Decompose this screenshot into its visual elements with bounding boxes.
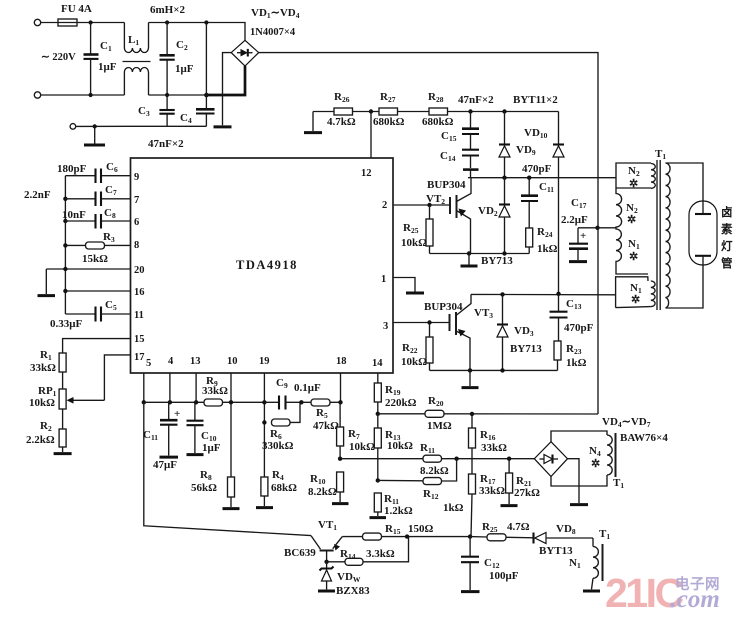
svg-text:10: 10 [227,356,238,367]
svg-text:1kΩ: 1kΩ [537,243,558,255]
node R11 right [454,457,458,461]
node pin13 bus [194,400,198,404]
wire collector line R15 [342,536,362,538]
svg-text:.com: .com [670,583,720,613]
wire pin10 down [230,373,232,402]
svg-text:4: 4 [168,356,174,367]
resistor R15 [363,523,471,540]
svg-text:BAW76×4: BAW76×4 [620,432,668,444]
svg-text:∼ 220V: ∼ 220V [41,52,76,63]
wire bottom bus [144,401,265,403]
node R25 top [427,203,431,207]
svg-text:470pF: 470pF [564,322,594,334]
wire earth line [76,125,207,127]
svg-text:10kΩ: 10kΩ [29,397,55,409]
diode VD2 [478,178,510,254]
ground VT3 source [462,370,479,387]
node bus pin16 [63,289,67,293]
wire AC bottom [41,94,125,96]
resistor R22 [401,323,433,371]
svg-text:15kΩ: 15kΩ [82,253,108,265]
terminal AC top [34,19,40,25]
svg-text:+: + [174,408,180,420]
svg-text:1μF: 1μF [98,61,117,73]
wire pin16 [65,290,130,292]
resistor R28 [422,91,454,128]
node bus pin20 [63,267,67,271]
node pin19 bus [262,400,266,404]
node VT3 source [468,368,472,372]
node R21 top [507,457,511,461]
lamp tube [689,201,717,265]
core T1 main [655,148,666,310]
transistor VT1 BC639 [284,519,342,562]
transistor VT3 BUP304 [424,294,493,370]
svg-text:灯: 灯 [721,239,733,253]
node VD3 bottom [500,368,504,372]
capacitor C1 [84,23,117,96]
wire IC pin2 to gate VT2 [393,204,450,206]
node R16 top [470,412,474,416]
svg-text:BY713: BY713 [510,343,542,355]
capacitor C8 [62,207,116,229]
svg-text:13: 13 [190,356,201,367]
svg-text:8.2kΩ: 8.2kΩ [420,465,449,477]
svg-text:180pF: 180pF [57,163,87,175]
node R13 bottom [376,478,380,482]
svg-text:56kΩ: 56kΩ [191,482,217,494]
wire IC pin3 to gate VT3 [393,322,450,324]
node C15 top [468,109,472,113]
wire R26 left stub [312,112,314,132]
wire bridge right to ground [568,459,580,503]
node pin12 feed [369,109,373,113]
wire feedback line [340,458,534,460]
wire pin9 [101,175,131,177]
node VT1 base [324,560,328,564]
svg-text:5: 5 [146,358,151,369]
svg-text:✲: ✲ [591,458,600,470]
diode VD10 [524,112,564,294]
svg-text:47nF×2: 47nF×2 [148,138,184,150]
svg-text:2.2μF: 2.2μF [561,214,588,226]
wire pin15 to R1 [63,339,131,353]
terminal AC bottom [34,92,40,98]
svg-text:7: 7 [134,195,139,206]
capacitor C15 [441,112,479,144]
capacitor C17 [561,197,597,262]
svg-text:17: 17 [134,352,145,363]
ground N1 [583,590,600,593]
resistor R16 [469,414,508,474]
node VD9 top [502,109,506,113]
ground pin1 [406,292,424,295]
node C1 top [89,20,93,24]
svg-text:2: 2 [382,200,387,211]
resistor R24 [526,226,558,255]
node R19 bottom [376,412,380,416]
svg-text:2.2nF: 2.2nF [24,189,51,201]
wire tap to winding [598,227,617,229]
svg-text:1μF: 1μF [175,63,194,75]
svg-text:4.7Ω: 4.7Ω [507,521,530,533]
svg-text:680kΩ: 680kΩ [422,116,454,128]
capacitor C7 [24,184,117,206]
svg-text:BYT11×2: BYT11×2 [513,94,558,106]
winding N1 [569,538,598,589]
capacitor C2 [160,23,194,96]
ground R2 [54,452,72,455]
wire pin4 down [169,373,171,402]
winding N4 [589,435,612,475]
wire bridge left vertex to ground [223,53,232,126]
wire VT3 source line [430,369,558,371]
svg-text:9: 9 [134,172,139,183]
terminal earth [70,124,76,130]
node R14 tie [405,534,409,538]
svg-text:1kΩ: 1kΩ [566,357,587,369]
node C11 top [527,176,531,180]
winding N2 lower / N1 upper primary [616,188,648,274]
svg-text:220kΩ: 220kΩ [385,397,417,409]
svg-text:47μF: 47μF [153,459,177,471]
resistor R14 [327,537,409,566]
node pin4 bus [168,400,172,404]
wire AC bottom right [149,94,207,96]
wire VT2 source line [430,253,530,255]
winding N2 upper primary [616,163,655,190]
svg-text:100μF: 100μF [489,570,519,582]
svg-text:10nF: 10nF [62,209,86,221]
capacitor C5 [50,299,131,330]
svg-text:10kΩ: 10kΩ [401,356,427,368]
ground earth [84,126,105,145]
capacitor C3 [138,95,175,126]
wire pin14 down [377,373,379,383]
svg-text:47nF×2: 47nF×2 [458,94,494,106]
wire pin5 long down [144,402,311,535]
svg-text:1: 1 [381,274,386,285]
logo 21IC [605,570,720,616]
svg-text:8.2kΩ: 8.2kΩ [308,486,337,498]
svg-text:18: 18 [336,356,347,367]
fuse FU 4A [58,3,92,26]
wire pin7 [101,198,131,200]
node VD2 top [502,176,506,180]
svg-text:+: + [580,230,586,242]
wire R20 rail [378,413,425,415]
wire pin 12 [370,112,372,159]
wire pin20 to ground [46,268,130,270]
node pin5 bus [142,400,146,404]
svg-text:BYT13: BYT13 [539,545,573,557]
svg-text:10kΩ: 10kΩ [349,441,375,453]
svg-text:8: 8 [134,240,139,251]
svg-text:47kΩ: 47kΩ [313,420,339,432]
resistor R25 [401,205,433,254]
resistor R4 [256,469,297,508]
svg-text:BC639: BC639 [284,547,316,559]
wire AC top to fuse [41,22,58,24]
svg-text:33kΩ: 33kΩ [30,362,56,374]
node C4 mid [204,93,209,98]
svg-text:68kΩ: 68kΩ [271,482,297,494]
resistor R19 [374,383,416,414]
node earth [93,124,97,128]
node pin10 bus [229,400,233,404]
core T1 base drive [602,544,604,581]
svg-text:BUP304: BUP304 [424,301,463,313]
transistor VT2 BUP304 [426,178,471,254]
wire AC top [77,22,124,24]
svg-text:卤: 卤 [721,205,733,219]
bridge VD4-VD7 BAW76 [534,416,668,477]
svg-text:6: 6 [134,217,139,228]
wire R26 line [313,111,334,113]
resistor R1 [30,349,66,389]
svg-text:素: 素 [721,222,733,236]
svg-text:✲: ✲ [629,178,638,190]
svg-text:VD1∼VD4: VD1∼VD4 [251,7,300,20]
wire left bus [64,176,66,314]
wire bridge top to N4 [551,431,607,442]
svg-text:1μF: 1μF [202,442,221,454]
resistor R3 [65,231,115,265]
wire pin17 to RP1 wiper [104,355,130,400]
svg-text:✲: ✲ [629,251,638,263]
svg-text:2.2kΩ: 2.2kΩ [26,434,55,446]
svg-text:10kΩ: 10kΩ [401,237,427,249]
capacitor C10 [187,402,221,454]
resistor R23 [554,341,587,370]
svg-text:330kΩ: 330kΩ [262,440,294,452]
diode VD3 [497,294,542,370]
ground bridge negative [214,125,232,128]
node R6 left [262,420,266,424]
ground pin20 [38,269,56,296]
resistor R7 [337,402,376,458]
svg-text:0.33μF: 0.33μF [50,318,82,330]
svg-text:6mH×2: 6mH×2 [150,4,185,16]
svg-text:14: 14 [372,358,383,369]
svg-text:680kΩ: 680kΩ [373,116,405,128]
svg-text:3.3kΩ: 3.3kΩ [366,548,395,560]
node C13 top [556,292,560,296]
wire VT2 drain rail [468,177,616,179]
ground VT2 source [461,254,478,267]
capacitor C12 [461,537,519,592]
node R22 top [427,320,431,324]
zener VDw BZX83 [318,562,370,597]
wire bridge bottom to N4 [551,475,607,486]
capacitor C9 [264,377,321,410]
wire pin1 stub [393,278,415,292]
svg-text:✲: ✲ [631,294,640,306]
diode VD8 BYT13 [534,523,594,557]
svg-text:4.7kΩ: 4.7kΩ [327,116,356,128]
svg-text:BUP304: BUP304 [427,179,466,191]
svg-text:16: 16 [134,287,145,298]
wire R20 rail right [444,413,598,415]
svg-text:19: 19 [259,356,270,367]
resistor R12b 1.2k [370,493,413,518]
ground bridge right [570,503,588,506]
wire pin18 down [340,373,342,402]
resistor R27 [373,91,405,128]
node bus C8 [63,219,67,223]
resistor R9 [202,375,228,406]
wire pin6 [101,220,131,222]
wire R28 to VD10 [448,111,559,113]
node C9 right [299,400,303,404]
node R7 bottom [338,457,342,461]
svg-text:✲: ✲ [627,214,636,226]
svg-text:11: 11 [134,310,144,321]
node bus R3 [63,243,67,247]
wire pin13 down [195,373,197,402]
node bus C7 [63,197,67,201]
inductor L1 common-mode choke [123,4,186,95]
wire AC top to bridge [149,23,246,41]
wire secondary top to lamp [666,163,704,201]
svg-text:27kΩ: 27kΩ [514,487,540,499]
svg-text:33kΩ: 33kΩ [479,485,505,497]
resistor R2 [26,409,66,452]
wire secondary bottom to lamp [666,265,704,308]
svg-text:12: 12 [361,168,372,179]
svg-text:BZX83: BZX83 [336,585,370,597]
IC U1 TDA4918 [131,158,394,373]
wire pin5 down [143,373,145,402]
node C12 top [468,534,472,538]
potentiometer RP1 [29,385,104,409]
node C17 tap [595,226,599,230]
svg-text:管: 管 [721,256,733,270]
capacitor C4 [180,23,215,127]
resistor R8 [191,402,240,508]
node pin18 bus [338,400,342,404]
winding N1 lower primary [616,277,656,308]
svg-text:FU 4A: FU 4A [61,3,92,15]
capacitor C11 electrolytic 47uF [143,402,180,471]
node VT2 source [467,251,471,255]
node VD3 top [500,292,504,296]
svg-text:1kΩ: 1kΩ [443,502,464,514]
wire R27-R28 [398,111,430,113]
resistor R6 [262,402,300,452]
diode VD9 [499,112,536,178]
wire VT3 drain rail [471,293,616,295]
svg-text:TDA4918: TDA4918 [236,258,298,272]
resistor R10 [308,472,349,504]
capacitor C11 [521,178,554,228]
wire pin8 [105,244,131,246]
wire R26-R27 [353,111,380,113]
capacitor C6 [57,161,118,183]
capacitor C14 [440,134,479,178]
svg-text:3: 3 [383,321,388,332]
resistor R5 [301,399,340,432]
wire pin19 down [263,373,265,477]
resistor R12 [378,459,464,514]
svg-text:0.1μF: 0.1μF [294,382,321,394]
svg-text:15: 15 [134,334,145,345]
winding secondary [666,163,671,308]
svg-text:20: 20 [134,265,145,276]
resistor R17 [469,473,506,537]
resistor R26 [327,91,356,128]
capacitor C13 [550,294,594,341]
svg-text:1N4007×4: 1N4007×4 [250,27,296,38]
node C3 top [165,93,169,97]
svg-text:1MΩ: 1MΩ [427,420,452,432]
svg-text:VD4∼VD7: VD4∼VD7 [602,416,651,429]
resistor R20 [425,395,452,432]
svg-text:10kΩ: 10kΩ [387,440,413,452]
resistor R25b 4.7 [470,521,533,541]
wire AC bottom thick to bridge [206,66,245,95]
ground R26 left [304,131,322,134]
svg-text:33kΩ: 33kΩ [202,385,228,397]
svg-text:470pF: 470pF [522,163,552,175]
core T1 sense [615,433,617,477]
wire DC+ top rail [259,53,598,414]
svg-text:150Ω: 150Ω [408,523,434,535]
resistor R13 [374,414,413,481]
bridge rectifier VD1-VD4 [231,7,300,66]
svg-text:33kΩ: 33kΩ [481,442,507,454]
node C1 bottom [89,93,93,97]
node C4 top [204,20,208,24]
svg-text:BY713: BY713 [481,255,513,267]
resistor R11 [420,442,449,477]
svg-text:1.2kΩ: 1.2kΩ [384,505,413,517]
node C2 top [165,20,169,24]
node VD2 bottom [502,251,506,255]
resistor R21 [501,459,541,506]
